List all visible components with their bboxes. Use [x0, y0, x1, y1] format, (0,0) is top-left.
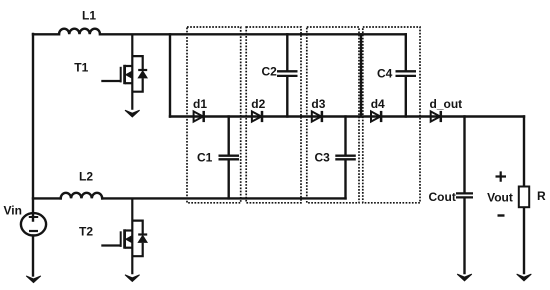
wire C4 column lower — [405, 77, 407, 117]
svg-text:C4: C4 — [377, 67, 393, 81]
diode d4 — [371, 111, 381, 122]
ground under T1 — [125, 110, 140, 117]
capacitor C4 — [396, 71, 417, 76]
resistor R — [519, 187, 529, 208]
wire R column lower — [523, 207, 525, 273]
label plus sign of Vout — [496, 171, 507, 181]
cell box 4 (dotted) — [363, 27, 420, 203]
cell box 2 (dotted) — [246, 27, 301, 203]
wire top rail right segment to C4 column — [100, 33, 406, 35]
svg-text:L2: L2 — [79, 170, 93, 184]
wire C4 column upper — [405, 34, 407, 70]
wire lower rail to C3 — [102, 197, 345, 199]
wire C3 junction riser — [344, 117, 346, 155]
svg-text:d1: d1 — [193, 97, 207, 111]
wire node A riser to diode row — [169, 34, 171, 116]
wire C2 column lower — [286, 77, 288, 117]
wire top rail left segment — [33, 33, 59, 35]
wire Cout column upper — [463, 117, 465, 193]
cell box 1 (dotted) — [187, 27, 241, 203]
svg-text:Cout: Cout — [429, 190, 456, 204]
diode d3 — [312, 111, 322, 122]
ground under Vin — [26, 276, 41, 283]
wire below Vin source — [32, 236, 34, 276]
svg-text:R: R — [537, 189, 546, 203]
inductor L2 — [61, 193, 102, 199]
diode d_out — [431, 111, 441, 122]
svg-text:Vin: Vin — [4, 204, 22, 218]
wire Cout column lower — [463, 198, 465, 273]
svg-text:d4: d4 — [371, 97, 385, 111]
svg-text:d3: d3 — [311, 97, 325, 111]
ground under R — [517, 274, 532, 281]
wire C3 to lower rail — [344, 160, 346, 198]
svg-text:T1: T1 — [74, 61, 88, 75]
cell box 3 (dotted) — [307, 27, 359, 203]
transistor T1 — [101, 34, 147, 110]
diode d1 — [194, 111, 204, 122]
capacitor C1 — [219, 156, 240, 160]
svg-text:C2: C2 — [262, 65, 278, 79]
svg-text:L1: L1 — [82, 9, 96, 23]
source Vin — [21, 213, 46, 235]
capacitor C2 — [277, 71, 298, 76]
wire diode row — [170, 115, 524, 117]
label minus sign of Vout — [498, 214, 505, 216]
diode d2 — [252, 111, 262, 122]
svg-text:d_out: d_out — [430, 97, 463, 111]
svg-text:C1: C1 — [197, 151, 213, 165]
wire lower rail left segment — [33, 197, 61, 199]
svg-text:T2: T2 — [79, 225, 93, 239]
svg-text:C3: C3 — [315, 151, 331, 165]
ground under T2 — [125, 275, 140, 282]
wire C1 junction riser — [227, 117, 229, 155]
svg-text:Vout: Vout — [487, 191, 513, 205]
capacitor C3 — [335, 156, 356, 160]
transistor T2 — [101, 198, 147, 274]
wire C1 to lower rail — [227, 160, 229, 198]
ground under Cout — [457, 274, 472, 281]
capacitor Cout — [456, 193, 473, 197]
svg-text:d2: d2 — [251, 97, 265, 111]
inductor L1 — [59, 29, 100, 35]
wire C2 column upper — [286, 34, 288, 70]
wire mid riser d3-d4 junction to top rail — [360, 34, 362, 116]
wire left input vertical — [32, 34, 34, 221]
wire R column upper — [523, 117, 525, 187]
